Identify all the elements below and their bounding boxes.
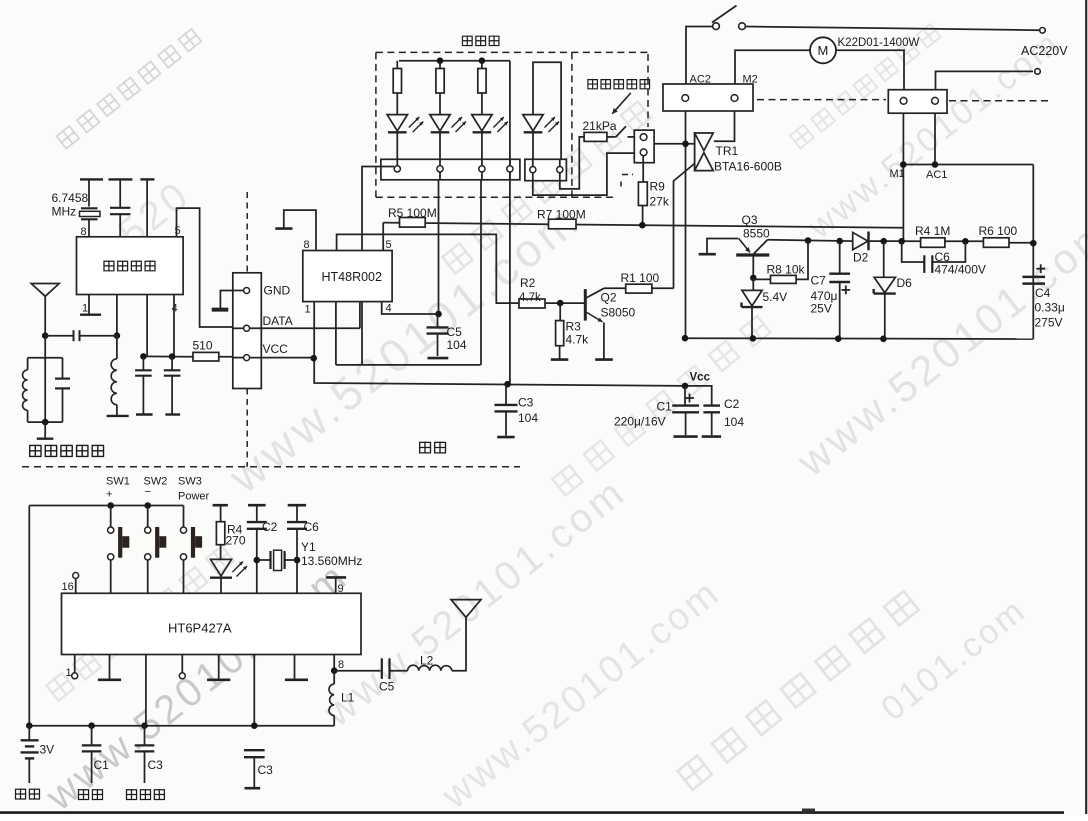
svg-text:C1: C1: [657, 400, 673, 414]
svg-text:6.7458: 6.7458: [52, 191, 89, 205]
svg-text:13.560MHz: 13.560MHz: [301, 554, 362, 568]
svg-text:M2: M2: [743, 74, 758, 86]
svg-text:0.33μ: 0.33μ: [1035, 301, 1065, 315]
svg-text:R8 10k: R8 10k: [767, 263, 806, 277]
svg-text:C3: C3: [258, 763, 274, 777]
svg-text:HT48R002: HT48R002: [322, 270, 382, 284]
svg-text:DATA: DATA: [263, 314, 293, 328]
svg-text:VCC: VCC: [263, 342, 289, 356]
svg-text:SW1: SW1: [106, 476, 130, 488]
svg-text:4.7k: 4.7k: [566, 333, 590, 347]
svg-text:AC2: AC2: [690, 74, 711, 86]
svg-text:S8050: S8050: [601, 306, 636, 320]
svg-text:K22D01-1400W: K22D01-1400W: [838, 37, 920, 49]
svg-text:C2: C2: [724, 397, 740, 411]
svg-text:R7 100M: R7 100M: [537, 208, 586, 222]
svg-text:21kPa: 21kPa: [583, 119, 617, 133]
svg-text:M1: M1: [890, 168, 905, 180]
svg-text:C6: C6: [304, 520, 320, 534]
svg-text:R1 100: R1 100: [621, 271, 660, 285]
svg-text:BTA16-600B: BTA16-600B: [714, 160, 782, 174]
svg-text:L1: L1: [341, 691, 355, 705]
svg-text:8: 8: [304, 239, 310, 251]
svg-text:1: 1: [305, 304, 311, 316]
svg-text:104: 104: [724, 415, 744, 429]
svg-text:510: 510: [193, 339, 213, 353]
svg-text:R4 1M: R4 1M: [915, 224, 950, 238]
svg-text:3V: 3V: [40, 743, 55, 757]
svg-text:MHz: MHz: [52, 205, 77, 219]
svg-text:1: 1: [66, 667, 72, 679]
svg-text:8: 8: [338, 659, 344, 671]
svg-text:C4: C4: [1035, 286, 1051, 300]
svg-text:104: 104: [447, 338, 467, 352]
svg-text:27k: 27k: [650, 195, 670, 209]
svg-text:4.7k: 4.7k: [519, 292, 541, 304]
svg-text:C3: C3: [518, 396, 534, 410]
svg-text:5: 5: [386, 239, 392, 251]
svg-text:25V: 25V: [811, 302, 832, 316]
svg-text:TR1: TR1: [716, 144, 739, 158]
svg-text:C5: C5: [379, 680, 395, 694]
svg-text:HT6P427A: HT6P427A: [168, 621, 232, 636]
svg-text:8550: 8550: [743, 227, 770, 241]
svg-text:C7: C7: [811, 274, 827, 288]
svg-text:R2: R2: [520, 276, 536, 290]
svg-text:5: 5: [175, 225, 181, 237]
svg-text:220μ/16V: 220μ/16V: [614, 415, 666, 429]
svg-text:Y1: Y1: [301, 540, 316, 554]
svg-text:4: 4: [386, 303, 392, 315]
svg-text:+: +: [106, 489, 112, 501]
svg-text:AC1: AC1: [926, 169, 947, 181]
svg-text:D2: D2: [853, 251, 869, 265]
svg-text:L2: L2: [420, 654, 434, 668]
svg-text:M: M: [818, 43, 829, 58]
svg-text:16: 16: [62, 581, 74, 593]
svg-text:GND: GND: [264, 284, 291, 298]
svg-text:1: 1: [82, 303, 88, 315]
svg-text:C1: C1: [94, 758, 110, 772]
svg-text:R3: R3: [566, 320, 582, 334]
svg-text:Q2: Q2: [601, 291, 617, 305]
svg-text:R5 100M: R5 100M: [388, 206, 437, 220]
svg-text:474/400V: 474/400V: [935, 263, 986, 277]
svg-text:C2: C2: [262, 520, 278, 534]
svg-text:R6 100: R6 100: [979, 224, 1018, 238]
svg-text:275V: 275V: [1035, 316, 1063, 330]
svg-text:270: 270: [226, 534, 246, 548]
svg-text:104: 104: [518, 411, 538, 425]
svg-text:AC220V: AC220V: [1021, 44, 1068, 58]
svg-text:Power: Power: [178, 491, 210, 503]
svg-text:C3: C3: [148, 758, 164, 772]
svg-text:5.4V: 5.4V: [763, 290, 788, 304]
svg-text:Q3: Q3: [742, 213, 758, 227]
svg-text:R9: R9: [650, 180, 666, 194]
svg-text:Vcc: Vcc: [690, 372, 711, 384]
svg-text:−: −: [145, 486, 151, 498]
svg-text:C5: C5: [447, 325, 463, 339]
svg-text:SW3: SW3: [178, 476, 202, 488]
svg-text:D6: D6: [897, 276, 913, 290]
